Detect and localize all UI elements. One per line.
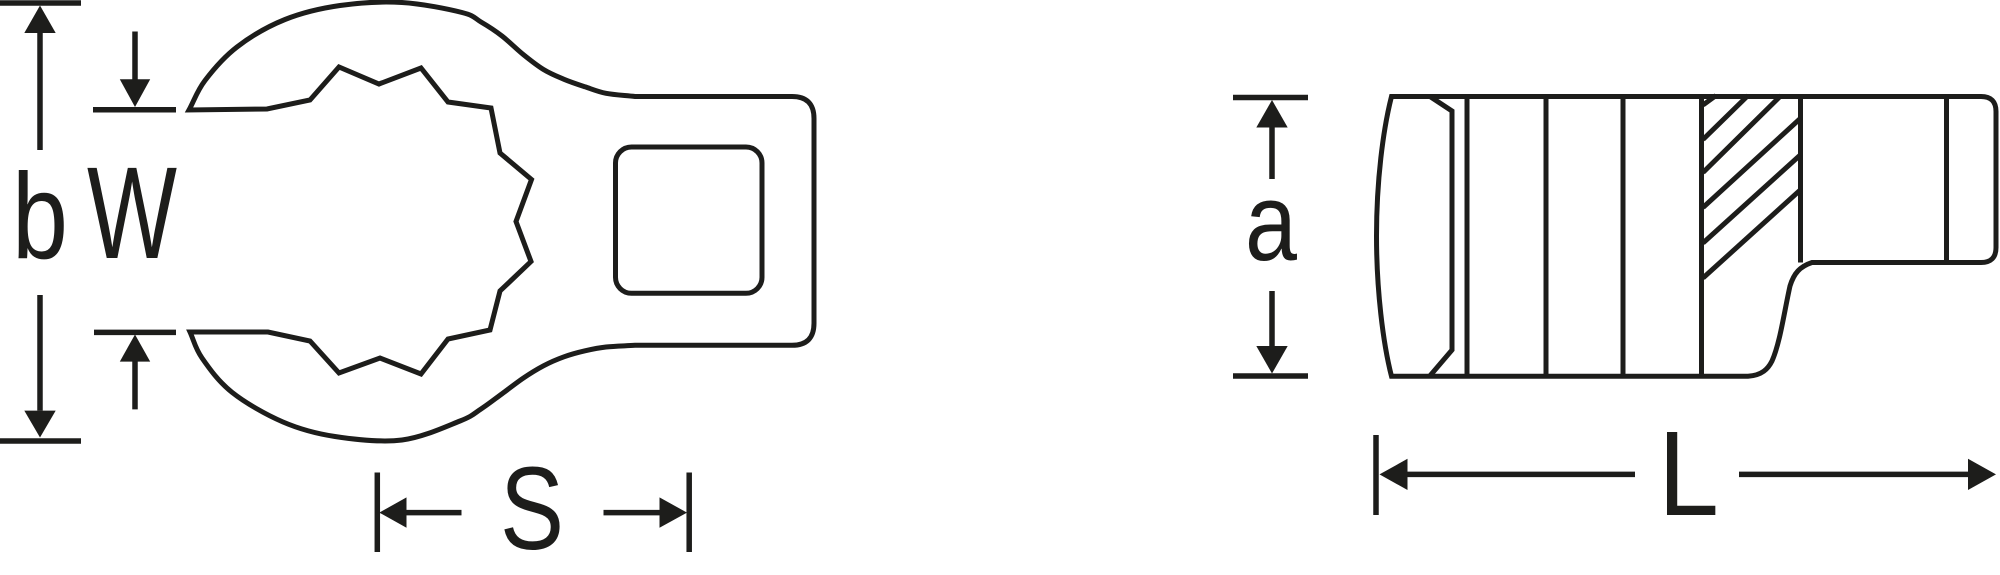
dimension b: bottom tick [0,438,81,444]
dimension b: top tick [0,0,81,6]
front view: square drive hole [616,147,763,293]
dimension W: up arrowhead [120,335,150,362]
side view: body outline [1377,97,1997,377]
dimension W: down arrowhead [120,79,150,107]
dimension W: upper arrow stem [132,32,138,81]
dimension L: left tick [1373,435,1379,515]
side view: step line 1 [1465,97,1470,376]
dimension S: right arrow stem [604,510,662,516]
dimension W: top tick [93,107,176,113]
hatch stroke 2 [1703,96,1748,140]
dimension W: bottom tick [94,330,176,336]
dimension S: left tick [375,473,381,553]
dimension S: left arrow stem [405,510,462,516]
dimension b: lower arrow stem [37,295,43,411]
dimension a: down arrowhead [1256,346,1287,374]
dimension b: up arrowhead [24,6,55,34]
hatch stroke 1 [1703,96,1716,106]
side view: step line 2 [1544,97,1549,376]
hatch stroke 4 [1703,119,1800,208]
side view: drive stub face line [1944,97,1949,263]
dimension b: upper arrow stem [37,33,43,150]
dimension L: left arrowhead [1380,459,1408,490]
dimension S: right tick [686,473,692,553]
svg-text:S: S [500,443,564,575]
dimension S: left arrowhead [379,497,406,527]
hatch stroke 6 [1703,190,1800,278]
dimension a: up arrowhead [1256,100,1287,128]
dimension b: down arrowhead [24,411,55,438]
side view: ring face chamfer line [1430,97,1452,376]
svg-text:a: a [1245,161,1298,284]
front view: crow-ring wrench outline with 12-point ring opening [189,2,814,441]
dimension a: top tick [1233,95,1308,101]
dimension S: right arrowhead [660,497,688,527]
svg-text:b: b [12,148,68,284]
dimension a: bottom tick [1233,373,1308,379]
dimension a: lower arrow stem [1269,291,1275,347]
hatch stroke 5 [1703,155,1800,243]
dimension L: right arrowhead [1968,459,1996,490]
side view: hatch left boundary line [1699,97,1704,376]
side view: hatch right boundary / body step line [1798,97,1803,263]
side view: step line 3 [1621,97,1626,376]
hatch stroke 3 [1703,96,1781,173]
dimension a: upper arrow stem [1269,127,1275,179]
dimension L: right arrow stem [1739,472,1969,478]
dimension L: left arrow stem [1405,472,1635,478]
dimension W: lower arrow stem [132,361,138,409]
svg-text:L: L [1658,405,1719,541]
svg-text:W: W [87,139,177,286]
